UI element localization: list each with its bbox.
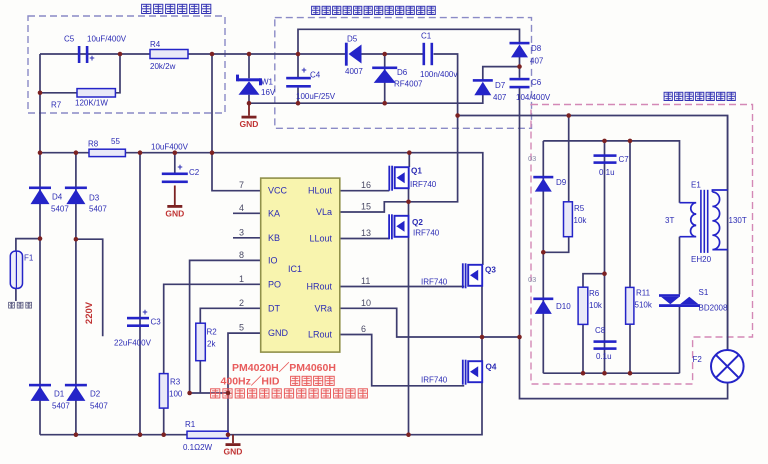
lamp F2 xyxy=(711,350,744,383)
wire S1 bottom lead xyxy=(679,307,681,374)
wire pin5 GND drop xyxy=(228,333,261,435)
svg-text:5407: 5407 xyxy=(52,402,70,411)
label: startup power section (CJK) xyxy=(142,4,151,13)
wire Q2 source long drop to shunt bus xyxy=(408,238,410,435)
svg-text:16: 16 xyxy=(361,180,371,190)
wire node line y393 xyxy=(190,392,228,394)
wire C4 bottom lead xyxy=(297,88,299,104)
wire R6 top tee xyxy=(583,274,605,288)
diode D2 5407 xyxy=(65,384,87,387)
svg-text:100: 100 xyxy=(169,390,183,399)
svg-text:4: 4 xyxy=(239,203,244,213)
svg-text:510k: 510k xyxy=(635,301,653,310)
svg-text:5407: 5407 xyxy=(89,205,107,214)
svg-text:13: 13 xyxy=(361,228,371,238)
wire R11 leg x630 xyxy=(629,141,631,373)
svg-text:3: 3 xyxy=(239,227,244,237)
zener diode W1 16V xyxy=(238,78,261,81)
wire pin4 KA stub xyxy=(233,212,261,214)
svg-text:100n/400v: 100n/400v xyxy=(420,70,457,79)
svg-text:Q4: Q4 xyxy=(486,363,497,372)
svg-text:BD2008: BD2008 xyxy=(699,304,728,313)
label: supplied-by-HV-absorption-network section (CJK) xyxy=(312,6,320,14)
wire rectified HV line B xyxy=(458,116,728,191)
svg-text:10uF400V: 10uF400V xyxy=(151,143,189,152)
svg-text:Q1: Q1 xyxy=(411,167,422,176)
wire C2 leg xyxy=(174,153,176,173)
wire trigger bottom rail y373.2 xyxy=(543,372,679,374)
resistor R11 xyxy=(626,287,634,324)
svg-text:220V: 220V xyxy=(84,301,95,324)
wire top rail right + drop to switch node xyxy=(409,54,458,202)
resistor R5 xyxy=(564,202,573,237)
svg-text:03: 03 xyxy=(528,275,536,284)
svg-text:HRout: HRout xyxy=(306,282,332,292)
wire R5 bottom to node252 xyxy=(543,237,568,253)
svg-text:C4: C4 xyxy=(310,71,321,80)
svg-text:407: 407 xyxy=(493,93,507,102)
svg-text:D3: D3 xyxy=(89,194,100,203)
svg-text:C3: C3 xyxy=(151,318,162,327)
wire bottom bus y434.7 + Q4 source riser xyxy=(40,383,482,435)
wire pin8 IO xyxy=(190,260,261,393)
transformer E1 primary winding 3T xyxy=(680,203,697,237)
wire pin16 HLout to Q1 gate xyxy=(340,190,389,192)
wire Q2 drain xyxy=(408,202,410,216)
diode D1 5407 xyxy=(29,384,51,387)
svg-text:1: 1 xyxy=(239,274,244,284)
svg-text:R11: R11 xyxy=(636,289,651,298)
wire lamp return from phase node xyxy=(520,337,728,399)
svg-text:IRF740: IRF740 xyxy=(421,376,448,385)
junction dots xyxy=(118,52,123,57)
resistor R2 xyxy=(196,323,206,361)
resistor R7 xyxy=(77,89,115,97)
diode D7 407 xyxy=(473,79,493,82)
svg-text:C5: C5 xyxy=(64,35,75,44)
resistor R6 xyxy=(578,287,588,324)
wire AC live branch to 220V terminal xyxy=(76,239,103,336)
wire pin6 LRout jog to Q4 gate xyxy=(340,335,464,386)
diode D4 5407 xyxy=(29,187,51,190)
svg-text:C7: C7 xyxy=(619,155,630,164)
sidac S1 BD2008 xyxy=(659,294,680,297)
svg-text:10: 10 xyxy=(361,298,371,308)
svg-text:+: + xyxy=(142,307,147,317)
capacitor C3 xyxy=(127,317,149,320)
HV trigger section dashed box (with notch) xyxy=(531,105,753,385)
svg-text:0.1u: 0.1u xyxy=(596,352,612,361)
svg-text:2: 2 xyxy=(239,298,244,308)
svg-text:EH20: EH20 xyxy=(691,255,712,264)
svg-text:C2: C2 xyxy=(189,168,200,177)
wire W1 top lead xyxy=(248,54,250,78)
svg-text:DT: DT xyxy=(268,303,280,313)
svg-text:GND: GND xyxy=(240,119,259,129)
svg-text:R5: R5 xyxy=(574,204,585,213)
wire trigger inner rail y140.9 + primary top lead xyxy=(543,141,679,203)
wire C3 leg xyxy=(139,153,141,435)
wire pin3 KB stub xyxy=(233,237,261,239)
wire Q1 source to switch node xyxy=(408,189,410,202)
wire pin1 PO to R3 xyxy=(164,284,261,373)
svg-text:+: + xyxy=(89,53,94,63)
svg-text:4007: 4007 xyxy=(345,67,363,76)
svg-text:S1: S1 xyxy=(699,288,709,297)
ground GND under C2 xyxy=(174,186,176,206)
svg-text:6: 6 xyxy=(361,324,366,334)
svg-text:2k: 2k xyxy=(207,340,216,349)
svg-text:LRout: LRout xyxy=(308,330,333,340)
svg-text:VLa: VLa xyxy=(316,207,332,217)
svg-text:R8: R8 xyxy=(88,140,99,149)
wire pin2 DT to R2 xyxy=(200,308,260,323)
svg-text:407: 407 xyxy=(530,57,544,66)
svg-text:C8: C8 xyxy=(595,326,606,335)
transistor Q4 IRF740 xyxy=(462,360,464,385)
capacitor C1 xyxy=(423,43,426,65)
svg-text:15: 15 xyxy=(361,202,371,212)
svg-text:104/400V: 104/400V xyxy=(516,93,551,102)
svg-text:R1: R1 xyxy=(185,420,196,429)
resistor R8 xyxy=(89,149,125,156)
ground GND at shunt xyxy=(232,435,234,444)
svg-text:D2: D2 xyxy=(90,390,101,399)
wire top rail y54 left part xyxy=(40,53,346,55)
wire D7 cathode to node J1 xyxy=(483,67,520,81)
svg-text:F1: F1 xyxy=(24,254,34,263)
wire C6 bottom long vertical to phase node xyxy=(519,88,521,337)
svg-text:120K/1W: 120K/1W xyxy=(75,99,108,108)
svg-text:3T: 3T xyxy=(665,216,674,225)
wire D6 leg xyxy=(384,54,386,103)
svg-text:+: + xyxy=(177,162,182,172)
svg-text:D4: D4 xyxy=(52,193,63,202)
svg-text:D8: D8 xyxy=(531,44,542,53)
svg-text:55: 55 xyxy=(111,137,120,146)
diode D5 4007 xyxy=(345,43,348,66)
capacitor C2 xyxy=(162,173,188,176)
svg-text:D1: D1 xyxy=(54,390,65,399)
HV absorption network supply section dashed box xyxy=(275,18,532,129)
wire left vertical x40 (C5/R7 to bridge to bottom bus) xyxy=(39,54,41,435)
IC U1 PM4020H body xyxy=(261,178,340,352)
wire R2 bottom lead xyxy=(199,361,201,393)
svg-text:0.1u: 0.1u xyxy=(599,168,615,177)
svg-text:IRF740: IRF740 xyxy=(410,180,437,189)
wire D8 anode to J1 and C6 xyxy=(519,55,521,78)
transformer E1 secondary winding 130T xyxy=(712,190,727,250)
svg-text:GND: GND xyxy=(224,447,243,457)
svg-text:D7: D7 xyxy=(495,81,506,90)
wire VCC feed x212 xyxy=(212,54,261,191)
svg-text:5: 5 xyxy=(239,323,244,333)
transformer E1 core xyxy=(700,190,702,253)
svg-text:100uF/25V: 100uF/25V xyxy=(296,92,336,101)
svg-text:D9: D9 xyxy=(556,178,567,187)
svg-text:8: 8 xyxy=(239,250,244,260)
svg-text:C6: C6 xyxy=(531,78,542,87)
svg-text:W1: W1 xyxy=(261,78,274,87)
svg-text:F2: F2 xyxy=(693,355,703,364)
svg-text:KA: KA xyxy=(268,208,280,218)
svg-text:400Hz／HID: 400Hz／HID xyxy=(221,375,280,388)
svg-text:R7: R7 xyxy=(51,101,62,110)
wire ground bus A y103 + D7 riser xyxy=(249,95,483,103)
wire pin10 VRa jog + phase line xyxy=(340,308,520,337)
wire pin15 VLa jog to switch node xyxy=(340,202,409,212)
transistor Q1 IRF740 xyxy=(388,166,390,191)
svg-text:R4: R4 xyxy=(150,40,161,49)
resistor R4 xyxy=(150,50,188,59)
capacitor C5 xyxy=(78,46,81,63)
wire second vertical x75.9 (D3/D2 leg) xyxy=(75,153,77,435)
transistor Q3 IRF740 xyxy=(462,263,464,288)
resistor R3 xyxy=(159,374,168,409)
wire HV bus y152.7 + drop to Q3 drain xyxy=(40,153,483,265)
transistor Q2 IRF740 xyxy=(388,214,390,239)
svg-text:7: 7 xyxy=(239,180,244,190)
svg-text:10uF/400V: 10uF/400V xyxy=(87,35,127,44)
svg-text:03: 03 xyxy=(528,154,536,163)
diode D6 RF4007 xyxy=(372,67,397,70)
svg-text:C1: C1 xyxy=(421,32,432,41)
svg-text:IC1: IC1 xyxy=(288,264,302,274)
svg-text:D6: D6 xyxy=(397,68,408,77)
wire R7 right riser xyxy=(115,54,120,93)
svg-text:R2: R2 xyxy=(207,328,218,337)
wire R6 bottom lead xyxy=(582,324,584,373)
svg-text:LLout: LLout xyxy=(309,234,332,244)
wire W1 anode to ground bus A xyxy=(248,95,250,104)
wire C7/C8 leg x604.5 xyxy=(604,141,606,373)
capacitor C8 xyxy=(594,340,617,343)
svg-text:D5: D5 xyxy=(347,35,358,44)
wire lamp top to secondary xyxy=(727,116,729,351)
svg-text:PO: PO xyxy=(268,279,281,289)
svg-text:R3: R3 xyxy=(170,378,181,387)
svg-text:R6: R6 xyxy=(589,289,600,298)
svg-text:IRF740: IRF740 xyxy=(413,229,440,238)
wire pin13 LLout to Q2 gate xyxy=(340,238,389,240)
svg-text:130T: 130T xyxy=(729,216,747,225)
wire Q3 source to phase node xyxy=(481,286,483,338)
svg-text:5407: 5407 xyxy=(90,402,108,411)
svg-text:5407: 5407 xyxy=(51,205,69,214)
svg-text:10k: 10k xyxy=(574,216,588,225)
svg-text:Q2: Q2 xyxy=(412,218,423,227)
diode D8 407 xyxy=(510,42,530,45)
svg-text:16V: 16V xyxy=(261,88,276,97)
label module source line3 (CJK) xyxy=(211,389,220,398)
capacitor C7 xyxy=(594,154,617,157)
svg-text:Q3: Q3 xyxy=(485,266,496,275)
svg-text:GND: GND xyxy=(268,328,289,338)
wire D9/D10 leg x543.3 xyxy=(542,141,544,373)
wire top rail y54 mid part xyxy=(361,53,424,55)
svg-text:RF4007: RF4007 xyxy=(394,80,423,89)
wire Q4 drain xyxy=(481,337,483,361)
wire box2 top rail y29.3 xyxy=(298,29,520,77)
svg-text:GND: GND xyxy=(165,209,184,219)
svg-text:20k/2w: 20k/2w xyxy=(150,62,176,71)
wire secondary bottom lead to lamp xyxy=(727,250,729,350)
fuse F1 xyxy=(10,251,22,288)
svg-text:KB: KB xyxy=(268,233,280,243)
wire primary bottom lead to S1 xyxy=(679,237,681,295)
svg-text:0.1Ω2W: 0.1Ω2W xyxy=(183,443,213,452)
wire pin11 HRout to Q3 gate xyxy=(340,286,464,288)
svg-text:+: + xyxy=(301,65,306,75)
wire R5 top leg xyxy=(568,116,570,202)
capacitor C4 xyxy=(286,77,311,80)
svg-text:IO: IO xyxy=(268,255,278,265)
svg-text:E1: E1 xyxy=(691,181,701,190)
svg-text:11: 11 xyxy=(361,276,370,286)
svg-text:HLout: HLout xyxy=(308,186,333,196)
svg-text:PM4020H／PM4060H: PM4020H／PM4060H xyxy=(232,361,336,374)
wire fuse branch xyxy=(16,239,40,301)
diode D9 xyxy=(533,176,553,179)
diode D3 5407 xyxy=(65,187,87,190)
wire R7 left connection xyxy=(40,92,77,94)
label: HV trigger section (CJK) xyxy=(664,92,672,100)
svg-text:VCC: VCC xyxy=(268,186,288,196)
label fuse (CJK) xyxy=(9,302,15,308)
wire R3 bottom lead xyxy=(163,408,165,435)
startup power supply section dashed box xyxy=(28,16,225,113)
svg-text:10k: 10k xyxy=(589,301,603,310)
wire Q1 drain xyxy=(408,153,410,167)
capacitor C6 xyxy=(510,78,530,81)
resistor R1 shunt xyxy=(187,431,228,438)
svg-text:IRF740: IRF740 xyxy=(421,278,448,287)
svg-text:VRa: VRa xyxy=(314,303,332,313)
svg-text:D10: D10 xyxy=(556,302,571,311)
svg-text:22uF400V: 22uF400V xyxy=(114,339,152,348)
diode D10 xyxy=(533,298,553,301)
ground GND under W1 xyxy=(248,104,250,116)
